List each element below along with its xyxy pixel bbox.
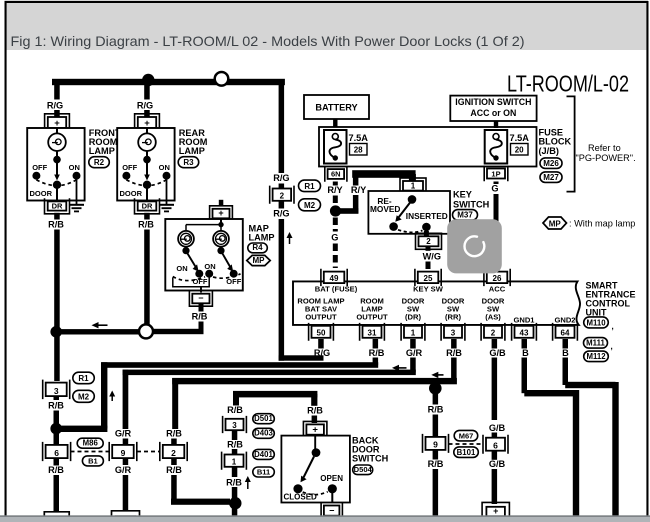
svg-text:28: 28 [354,145,363,154]
wire rear lamp R/B down to junction circle [144,248,150,325]
wire R/G drop to front room lamp [54,85,60,100]
svg-text:(J/B): (J/B) [539,146,559,156]
connector + of front room lamp [45,114,70,131]
svg-text:B101: B101 [457,448,476,457]
junction dot on top bus [142,74,154,86]
pin 1 [401,323,425,341]
map lamp R4 box [165,219,243,291]
svg-text:R1: R1 [78,374,89,383]
front room lamp R2 box [27,128,84,201]
arrow up beside bus [111,394,113,402]
connector 25 [415,269,441,286]
connector 1 key switch [400,178,426,194]
oval D403 [253,428,274,438]
ground of front room lamp [76,180,78,205]
svg-text:DOOR: DOOR [120,189,143,198]
svg-text:INSERTED: INSERTED [406,211,448,221]
svg-text:D401: D401 [254,450,273,459]
dashed link 9 to 6 right [449,443,484,445]
connector 3 front lamp wire [43,380,70,400]
svg-text:ACC or ON: ACC or ON [470,108,516,118]
svg-text:OFF: OFF [122,163,137,172]
svg-text:R/B: R/B [307,406,323,416]
svg-text:G/R: G/R [115,465,132,475]
svg-text:R/B: R/B [227,405,243,415]
oval B101 [454,447,479,458]
oval M111 [584,338,608,349]
dashed link 6 to 9 [71,451,110,453]
svg-text:R/G: R/G [273,209,289,219]
svg-text:+: + [312,424,318,435]
svg-text:64: 64 [561,329,570,338]
connector + bottom [482,502,509,520]
oval M27 [540,172,562,183]
bracket PG-POWER [567,96,575,191]
svg-text:R/B: R/B [369,348,385,358]
wire R/Y branch to key switch pin 1 [336,208,359,214]
svg-text:M67: M67 [459,431,474,440]
wire R/Y G from 6N to connector 49 [333,182,338,186]
svg-text:R/Y: R/Y [351,185,366,195]
svg-text:R/B: R/B [166,465,182,475]
svg-text:BATTERY: BATTERY [315,102,357,112]
fuse block J/B box [319,127,537,167]
svg-text:IGNITION SWITCH: IGNITION SWITCH [455,97,531,107]
pin 64 [553,323,578,341]
dashed link 9 to 2 [137,451,160,453]
wire G/R pin 1 bus [410,339,416,349]
svg-text:OFF: OFF [193,277,208,286]
wire R/B below rear room lamp [144,213,150,220]
svg-text:M2: M2 [304,201,316,210]
switch of rear room lamp [146,151,148,156]
oval M2 top [299,199,321,211]
wire ignition to fuse [494,121,498,128]
arrow left on G/R bus [395,367,407,369]
battery [304,95,369,119]
svg-text:6: 6 [54,448,59,458]
back door switch contacts [314,435,316,449]
oval M86 [77,438,103,448]
wire G/R down to bottom [123,439,129,446]
svg-text:G/B: G/B [489,423,506,433]
svg-text:LAMP: LAMP [249,233,275,243]
svg-text:G/R: G/R [406,348,423,358]
pin 2 [481,323,505,341]
svg-text:GND2: GND2 [554,316,575,325]
svg-text:G: G [331,233,338,243]
fuse 7.5A 28 [324,130,347,164]
svg-text:SWITCH: SWITCH [352,454,389,464]
oval B11 [253,467,274,477]
oval D504 [353,465,373,475]
svg-text:R/B: R/B [138,219,154,229]
svg-text:6N: 6N [331,170,341,179]
fuse 7.5A 20 [485,130,508,164]
label box 20 [511,144,529,156]
svg-text:ON: ON [69,163,80,172]
junction dot door switch bus [429,382,442,395]
svg-text:CLOSED: CLOSED [284,493,318,502]
oval M2 lower [73,390,95,402]
arrow left at junction [434,374,443,376]
svg-text:KEY SW: KEY SW [413,285,444,294]
svg-text:ON: ON [176,264,187,273]
svg-text:49: 49 [330,274,339,283]
bulb of front room lamp [56,128,58,133]
back door switch D504 box [281,436,350,503]
svg-text:1: 1 [232,458,237,467]
svg-text:GND1: GND1 [513,316,535,325]
svg-text:R/Y: R/Y [327,185,342,195]
connector 49 [321,269,347,286]
connector 26 [484,269,510,286]
wire R/B below junction dot [433,392,439,405]
svg-text:,: , [611,342,613,351]
svg-text:(DR): (DR) [405,313,421,322]
svg-text:+: + [493,506,498,516]
wire G/B pin 2 down [492,339,498,349]
svg-text:M110: M110 [586,318,606,327]
svg-text:OPEN: OPEN [320,474,343,483]
svg-text:1: 1 [411,329,416,338]
connector 2 on R/G riser [270,186,294,204]
svg-text:M86: M86 [83,439,99,448]
wire R/G riser to connector 2 [279,82,285,173]
wire R/G drop to rear room lamp [144,85,150,100]
arrow left on map lamp wire [95,324,108,326]
switch of front room lamp [56,151,58,156]
bottom status strip [0,515,650,517]
map lamp switch [182,247,189,254]
svg-text:G/R: G/R [115,429,132,439]
svg-text:R/B: R/B [446,348,462,358]
svg-text:3: 3 [232,421,237,430]
oval D401 [253,449,274,459]
bottom connector below G/R wire [112,511,140,522]
oval R4 [248,243,267,253]
oval M67 [454,430,478,441]
label box 28 [350,144,368,156]
svg-text:OFF: OFF [32,163,47,172]
connector + back door switch [303,421,327,437]
wire B pin 64 [563,339,569,349]
svg-text:MP: MP [253,256,266,265]
connector + of map lamp [210,206,233,221]
svg-text:50: 50 [317,329,326,338]
map lamp bulb 1 [178,231,194,247]
connector 3 back door chain [223,416,247,433]
wire stub above map lamp [219,200,224,207]
title bar [5,0,649,50]
connector 6 lower left [43,442,71,461]
svg-text:OUTPUT: OUTPUT [305,313,337,322]
svg-text:SWITCH: SWITCH [453,200,490,210]
svg-text:MP: MP [549,220,562,229]
wire R/G riser lower part [279,201,285,209]
svg-text:MOVED: MOVED [370,204,400,214]
svg-text:: With map lamp: : With map lamp [569,218,635,228]
svg-text:7.5A: 7.5A [510,133,530,143]
svg-text:LAMP: LAMP [179,146,205,156]
wire label R/B below connector 3 [54,397,60,401]
svg-text:R/G: R/G [273,173,289,183]
connector 1P [484,166,508,182]
wire R/B connector 2 elbow to junction [171,439,177,446]
arrow up beside R/B wire [247,479,249,489]
connector 2 key switch [416,233,442,249]
svg-text:LT-ROOM/L-02: LT-ROOM/L-02 [507,71,629,97]
svg-text:R4: R4 [252,243,263,252]
svg-text:G/B: G/B [489,348,506,358]
wire R/B pin 3 elbow [451,339,457,349]
svg-text:R1: R1 [304,182,315,191]
svg-text:2: 2 [491,329,496,338]
wire key switch to connector 2 [424,231,429,237]
svg-text:3: 3 [54,386,59,396]
key switch contacts [408,195,417,204]
svg-text:1: 1 [411,181,416,190]
connector 9 lower left [109,442,137,461]
wire G from 1P to connector 26 [494,182,499,185]
arrow up beside R/G riser [289,235,291,244]
bulb of rear room lamp [146,128,148,133]
svg-text:+: + [218,208,223,218]
svg-text:R/B: R/B [166,429,182,439]
svg-text:2: 2 [426,237,431,246]
wire R/G pin 50 elbow [279,355,324,360]
oval R1 lower [73,372,95,384]
svg-text:DOOR: DOOR [30,189,53,198]
svg-text:R/B: R/B [192,312,208,322]
svg-text:31: 31 [368,329,377,338]
connector 2 lower left [160,442,187,461]
wire B pin 43 [522,339,528,349]
svg-text:G: G [491,184,498,194]
svg-text:43: 43 [520,329,529,338]
connector 6 right [483,435,508,454]
open circle junction on top bus [215,72,229,86]
svg-text:26: 26 [493,274,502,283]
svg-text:3: 3 [451,329,456,338]
connector 1 back door chain [222,452,247,470]
svg-text:25: 25 [424,274,433,283]
wire battery to fuse [333,119,337,128]
wire R/B long bus to junction [172,378,437,384]
map lamp bulb 2 [213,231,229,247]
svg-text:R/B: R/B [48,401,64,411]
oval D501 [253,414,274,424]
svg-text:G/B: G/B [489,459,506,469]
rear room lamp R3 box [117,128,174,201]
svg-text:,: , [612,322,614,331]
oval R3 [178,157,199,168]
svg-text:"PG-POWER".: "PG-POWER". [576,153,636,163]
oval M110 [584,317,609,328]
svg-text:ON: ON [159,163,170,172]
svg-text:−: − [198,293,203,303]
svg-text:2: 2 [280,192,285,201]
svg-text:OFF: OFF [226,277,241,286]
svg-text:(AS): (AS) [485,313,501,322]
pin 50 [309,323,334,341]
smart entrance control unit box [293,281,580,325]
wire R/B below front room lamp [54,213,60,220]
oval R2 [89,157,110,168]
connector DR of rear room lamp [135,198,160,214]
svg-text:B: B [522,348,529,358]
svg-text:Fig 1: Wiring Diagram - LT-ROO: Fig 1: Wiring Diagram - LT-ROOM/L 02 - M… [11,34,525,49]
svg-text:R2: R2 [94,158,105,167]
wire R/B bus to back door area [233,391,317,398]
connector DR of front room lamp [45,198,70,214]
svg-text:2: 2 [171,448,176,458]
svg-text:R/B: R/B [227,440,243,450]
open circle junction rear lamp [139,324,153,338]
pin 31 [360,323,385,341]
svg-text:(RR): (RR) [445,313,461,322]
svg-text:R/B: R/B [428,405,444,415]
hexagon MP map lamp [247,255,270,265]
svg-text:B11: B11 [257,467,270,476]
wire R/B below map lamp [199,304,204,312]
ground of rear room lamp [166,180,168,205]
svg-text:M26: M26 [543,159,559,168]
svg-text:D403: D403 [254,429,273,438]
connector - back door switch [321,503,342,519]
svg-text:OUTPUT: OUTPUT [356,313,388,322]
junction dot bottom [229,497,241,509]
svg-text:W/G: W/G [423,252,441,262]
svg-text:R3: R3 [183,158,194,167]
svg-text:DR: DR [52,201,63,210]
svg-text:M112: M112 [586,352,606,361]
connector 6N [325,166,347,181]
wire W/G to connector 25 [426,247,431,251]
svg-text:R/B: R/B [226,477,242,487]
svg-text:LAMP: LAMP [89,146,115,156]
loading spinner overlay [447,219,502,273]
svg-text:KEY: KEY [453,190,472,200]
junction dot front lamp wire map branch [50,326,62,338]
svg-text:R/G: R/G [47,101,63,111]
svg-text:9: 9 [121,448,126,458]
svg-text:R/G: R/G [137,101,153,111]
svg-text:R/B: R/B [428,459,444,469]
oval M37 [453,210,478,221]
svg-text:D504: D504 [354,465,373,474]
oval M26 [540,158,562,169]
svg-text:20: 20 [515,145,524,154]
svg-text:ON: ON [204,262,215,271]
svg-text:9: 9 [433,440,438,450]
pin 3 [441,323,465,341]
wire top R/G bus [52,79,285,85]
oval R1 top [299,180,321,192]
ignition switch box [450,96,536,121]
svg-text:M2: M2 [78,393,90,402]
svg-text:R/B: R/B [48,219,64,229]
svg-text:M111: M111 [586,338,605,347]
connector 9 right [423,434,449,453]
svg-text:M27: M27 [543,173,559,182]
junction dot R/Y [330,205,341,216]
svg-text:Refer to: Refer to [588,143,621,153]
page border [5,1,648,3]
map lamp internal wiring [220,219,222,225]
svg-text:B: B [562,348,569,358]
oval B1 [82,456,103,466]
wire R/B pin 31 bus [373,339,379,349]
junction dot bus R/B front lamp [50,423,62,435]
key switch M37 box [368,191,450,234]
oval M112 [584,351,609,362]
svg-text:6: 6 [493,441,498,451]
svg-text:1P: 1P [491,169,500,178]
wire R/B right drop to back door switch [311,394,317,406]
svg-text:ACC: ACC [489,285,506,294]
wire map lamp to junction circle [148,329,204,334]
svg-text:M37: M37 [457,211,473,220]
connector - of map lamp [189,291,212,306]
svg-text:−: − [329,506,334,516]
svg-text:DR: DR [142,201,153,210]
svg-text:R/G: R/G [314,348,330,358]
svg-text:B1: B1 [88,456,98,465]
svg-text:R/B: R/B [48,465,64,475]
svg-text:D501: D501 [254,414,273,423]
bottom connector below front lamp wire [44,512,69,522]
pin 43 [512,323,537,341]
svg-text:7.5A: 7.5A [349,133,369,143]
connector + of rear room lamp [135,114,160,131]
hexagon MP legend [543,217,567,229]
wire front lamp R/B down [54,248,60,381]
